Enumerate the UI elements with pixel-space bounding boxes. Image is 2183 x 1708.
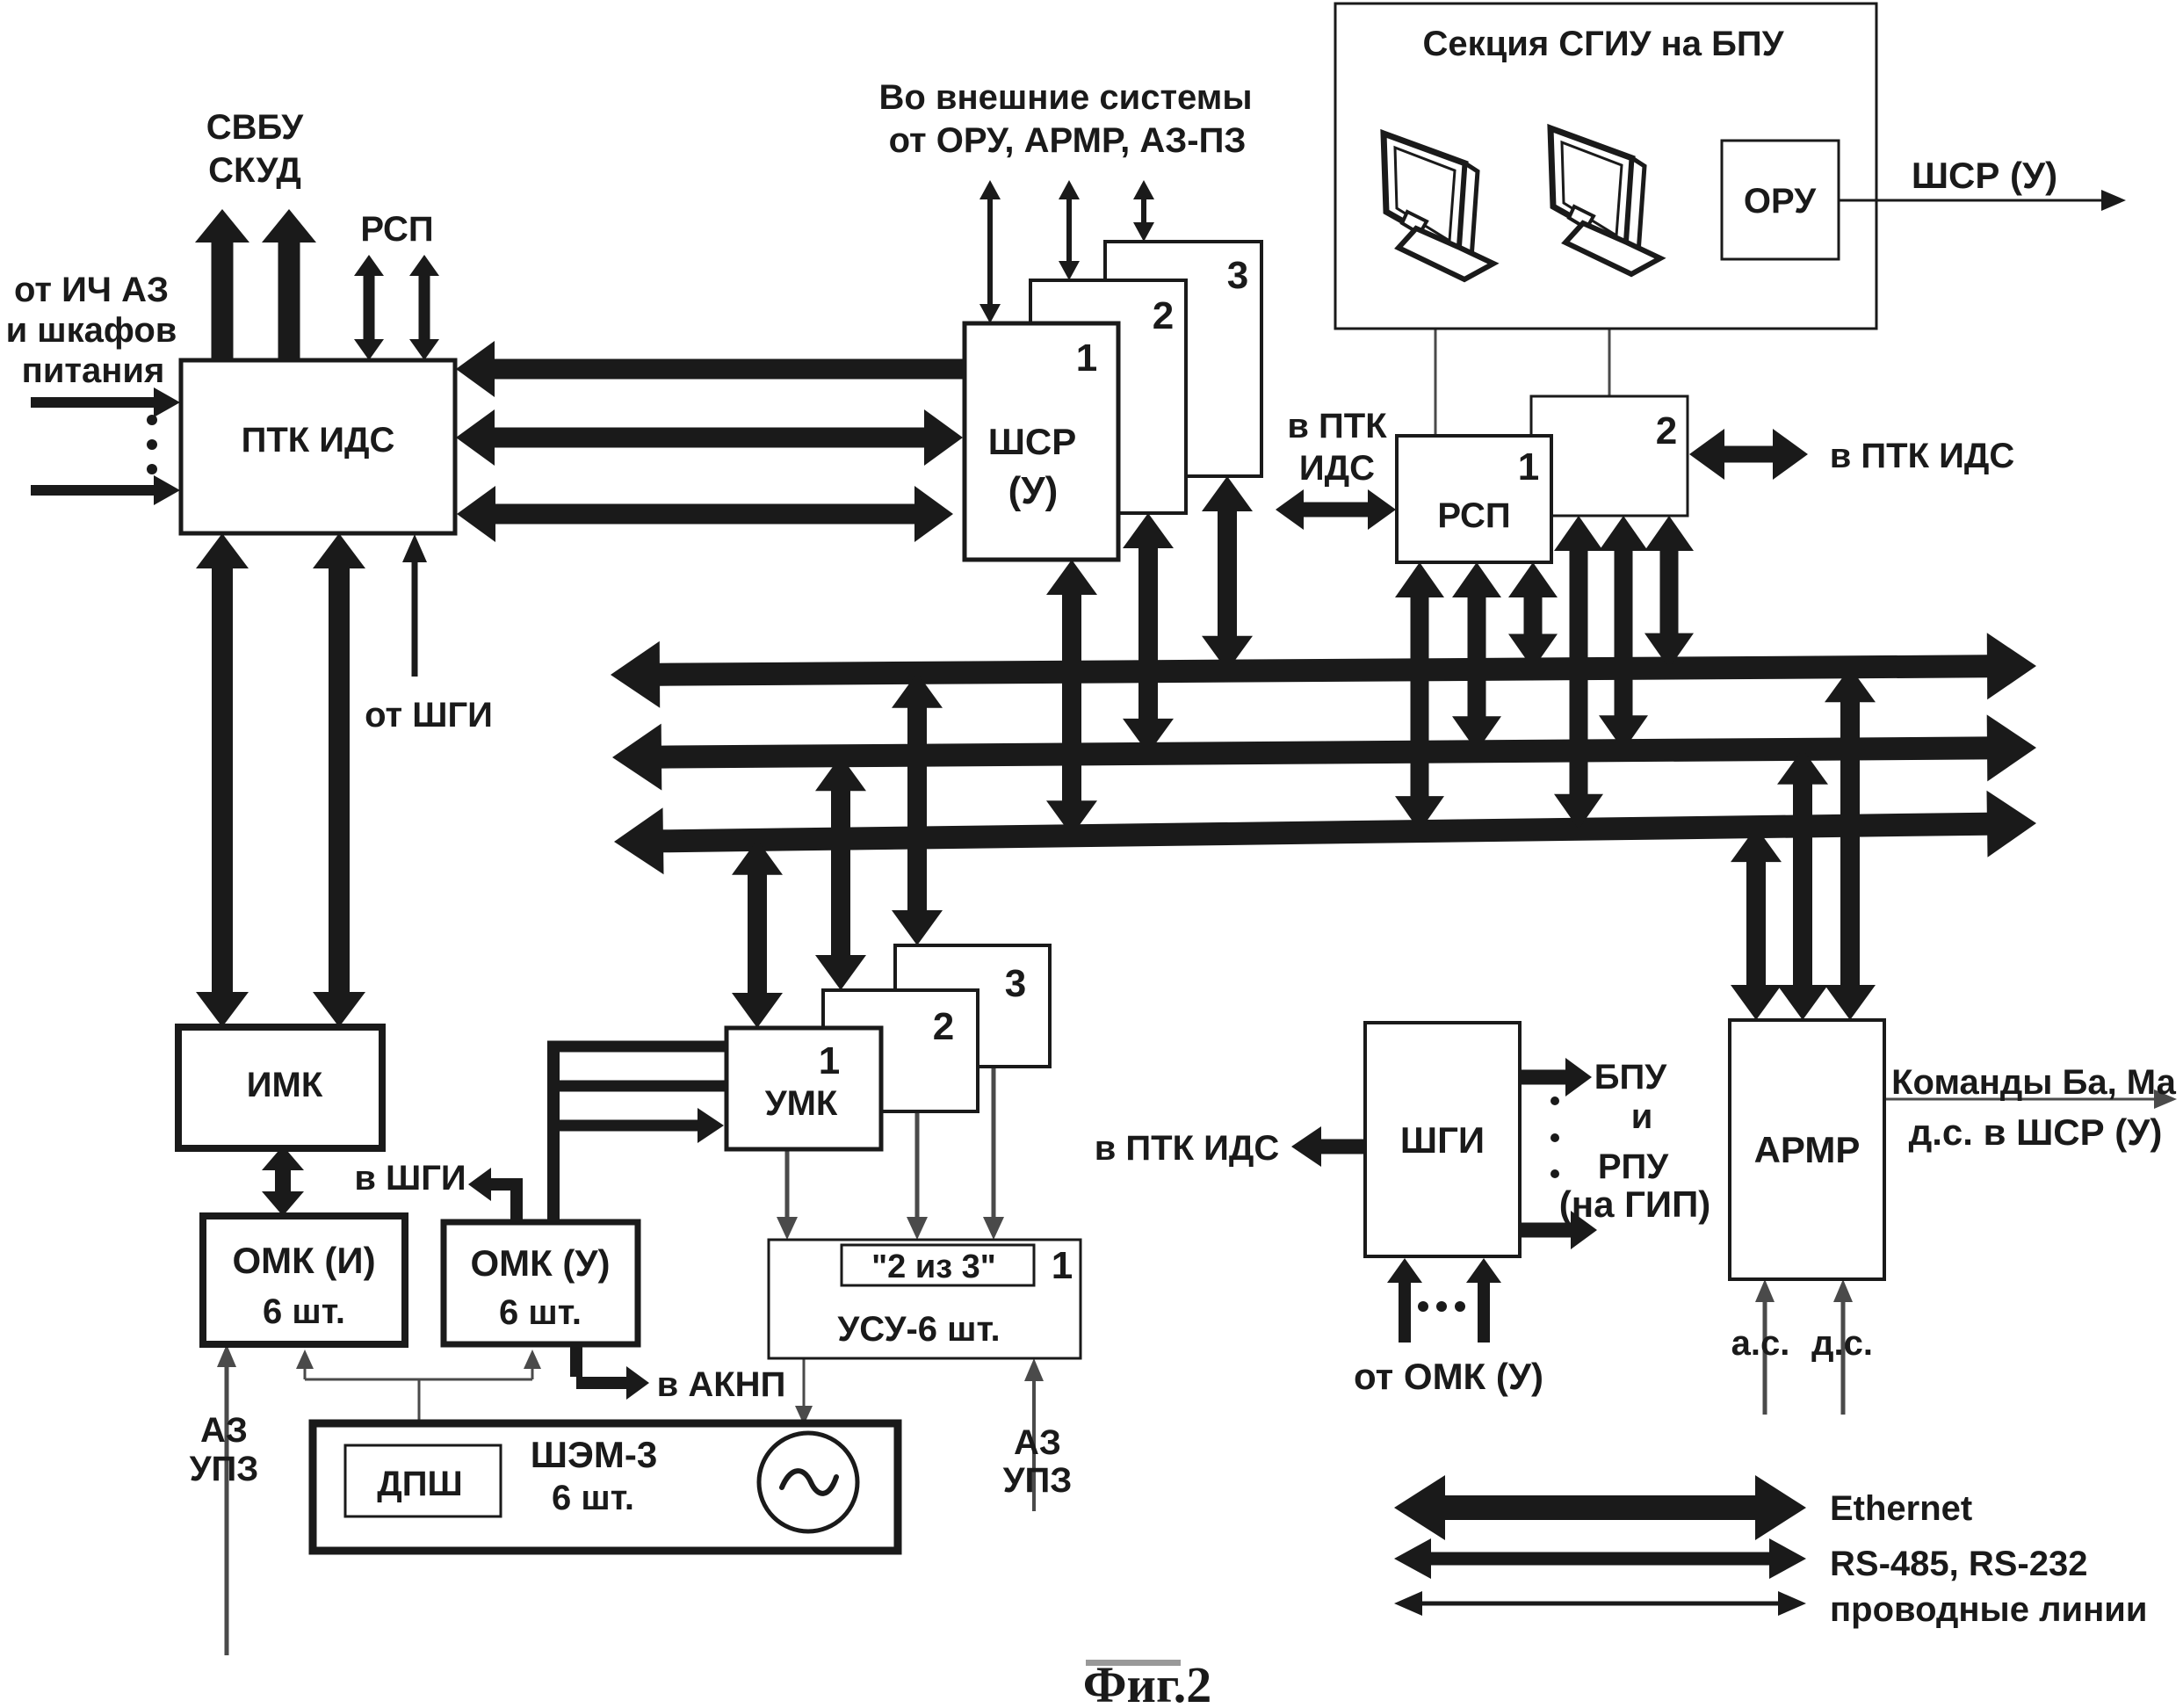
svg-text:от ИЧ АЗ: от ИЧ АЗ <box>14 271 169 309</box>
svg-text:УПЗ: УПЗ <box>1003 1461 1073 1500</box>
svg-text:и шкафов: и шкафов <box>6 311 177 350</box>
svg-text:6 шт.: 6 шт. <box>263 1292 345 1331</box>
svg-text:ШЭМ-3: ШЭМ-3 <box>531 1434 657 1475</box>
svg-text:от ОРУ, АРМР, АЗ-ПЗ: от ОРУ, АРМР, АЗ-ПЗ <box>889 121 1247 160</box>
svg-text:3: 3 <box>1005 962 1026 1005</box>
svg-text:д.с. в ШСР (У): д.с. в ШСР (У) <box>1909 1111 2163 1153</box>
svg-text:в АКНП: в АКНП <box>657 1365 786 1404</box>
svg-text:от ШГИ: от ШГИ <box>365 696 493 735</box>
svg-text:СВБУ: СВБУ <box>206 108 305 147</box>
svg-text:в ПТК ИДС: в ПТК ИДС <box>1095 1129 1280 1168</box>
svg-text:РСП: РСП <box>360 210 433 249</box>
svg-text:АРМР: АРМР <box>1754 1129 1861 1170</box>
svg-text:2: 2 <box>933 1005 954 1048</box>
svg-text:1: 1 <box>819 1039 840 1082</box>
svg-text:от ОМК (У): от ОМК (У) <box>1354 1356 1543 1397</box>
svg-text:а.с.: а.с. <box>1731 1324 1790 1363</box>
svg-text:ИМК: ИМК <box>247 1066 323 1104</box>
svg-text:и: и <box>1631 1097 1653 1136</box>
svg-text:УПЗ: УПЗ <box>190 1450 259 1488</box>
svg-text:1: 1 <box>1052 1244 1073 1287</box>
svg-text:АЗ: АЗ <box>1014 1423 1061 1462</box>
svg-text:ОРУ: ОРУ <box>1744 182 1817 221</box>
svg-text:РСП: РСП <box>1437 496 1510 535</box>
svg-text:ОМК (У): ОМК (У) <box>470 1242 610 1284</box>
svg-text:6 шт.: 6 шт. <box>499 1293 582 1332</box>
svg-text:СКУД: СКУД <box>208 151 301 190</box>
svg-text:ШГИ: ШГИ <box>1400 1119 1485 1161</box>
svg-text:ШСР (У): ШСР (У) <box>1912 155 2057 196</box>
svg-text:ПТК ИДС: ПТК ИДС <box>242 421 395 460</box>
svg-text:RS-485, RS-232: RS-485, RS-232 <box>1830 1545 2087 1583</box>
svg-text:Команды Ба, Ма: Команды Ба, Ма <box>1891 1063 2176 1102</box>
svg-text:Секция СГИУ на БПУ: Секция СГИУ на БПУ <box>1423 25 1785 63</box>
svg-text:ОМК (И): ОМК (И) <box>232 1240 375 1281</box>
svg-text:в ПТК ИДС: в ПТК ИДС <box>1830 437 2015 475</box>
svg-text:д.с.: д.с. <box>1811 1324 1873 1363</box>
svg-text:в ШГИ: в ШГИ <box>354 1159 466 1198</box>
svg-text:ДПШ: ДПШ <box>377 1465 462 1503</box>
svg-text:УСУ-6 шт.: УСУ-6 шт. <box>837 1310 1000 1349</box>
svg-text:Во внешние системы: Во внешние системы <box>878 78 1252 117</box>
svg-text:Ethernet: Ethernet <box>1830 1489 1972 1528</box>
svg-text:3: 3 <box>1227 254 1248 297</box>
svg-text:6 шт.: 6 шт. <box>552 1479 634 1517</box>
svg-text:РПУ: РПУ <box>1598 1147 1669 1186</box>
svg-text:питания: питания <box>22 351 165 390</box>
svg-text:1: 1 <box>1518 445 1539 489</box>
svg-text:(У): (У) <box>1008 469 1059 512</box>
svg-text:"2 из 3": "2 из 3" <box>871 1248 996 1285</box>
svg-text:Фиг.2: Фиг.2 <box>1083 1656 1212 1704</box>
svg-text:ШСР: ШСР <box>988 421 1077 462</box>
svg-text:ИДС: ИДС <box>1299 449 1375 488</box>
svg-text:БПУ: БПУ <box>1594 1058 1668 1096</box>
svg-text:АЗ: АЗ <box>200 1411 248 1450</box>
svg-text:1: 1 <box>1076 337 1097 380</box>
svg-text:УМК: УМК <box>765 1084 838 1123</box>
svg-text:2: 2 <box>1153 294 1174 337</box>
svg-text:в ПТК: в ПТК <box>1287 407 1387 445</box>
svg-text:проводные линии: проводные линии <box>1830 1590 2147 1629</box>
svg-text:2: 2 <box>1656 409 1677 452</box>
svg-text:(на ГИП): (на ГИП) <box>1559 1183 1711 1225</box>
